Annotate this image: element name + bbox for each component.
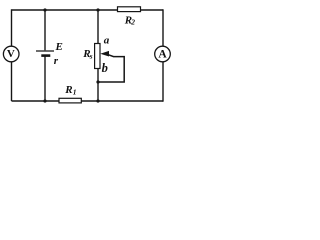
svg-text:2: 2: [130, 18, 135, 27]
svg-text:1: 1: [73, 88, 77, 97]
resistor R1 box: [59, 98, 81, 103]
wire rheostat branch upper: [97, 10, 99, 44]
svg-text:V: V: [7, 48, 15, 60]
voltmeter V circle: [3, 46, 19, 62]
junction dot wiper loop: [96, 80, 99, 83]
svg-text:s: s: [89, 52, 93, 61]
junction dot rheostat bottom: [96, 99, 99, 102]
ammeter A circle: [155, 46, 171, 62]
svg-text:E: E: [55, 41, 63, 53]
svg-text:a: a: [104, 35, 110, 47]
wire battery branch upper: [44, 10, 46, 50]
wire top right segment: [141, 9, 164, 11]
svg-text:A: A: [158, 49, 167, 61]
wire left upper segment: [11, 9, 13, 46]
wire right lower segment: [162, 62, 164, 102]
battery E short thick plate: [41, 54, 50, 57]
wire bottom right segment: [81, 100, 163, 102]
wire right upper segment: [162, 9, 164, 46]
resistor R2 box: [118, 7, 141, 12]
wire rheostat branch lower: [97, 69, 99, 102]
svg-text:r: r: [54, 55, 59, 67]
svg-text:b: b: [102, 61, 108, 75]
junction dot battery top: [43, 8, 46, 11]
wire battery branch lower: [44, 57, 46, 102]
svg-text:R: R: [64, 84, 72, 96]
wire top left segment: [12, 9, 118, 11]
wire bottom left segment: [12, 100, 60, 102]
rheostat wiper arrow: [100, 51, 109, 57]
junction dot rheostat top: [96, 8, 99, 11]
wire left lower segment: [11, 62, 13, 101]
battery E long plate: [36, 50, 54, 52]
rheostat Rs box: [95, 44, 100, 69]
junction dot battery bottom: [43, 99, 46, 102]
wire wiper to loop: [98, 54, 124, 82]
